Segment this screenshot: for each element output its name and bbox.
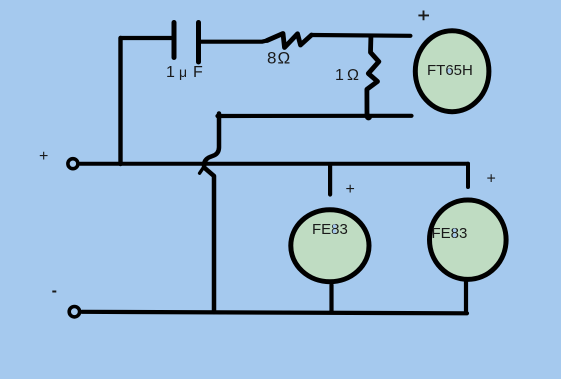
svg-text:8: 8 xyxy=(267,49,276,68)
svg-text:+: + xyxy=(487,171,496,188)
svg-text:Ω: Ω xyxy=(347,67,359,84)
svg-text:FE83: FE83 xyxy=(432,225,468,242)
wire: top wire to capacitor xyxy=(121,36,173,40)
wire: + rail from terminal to right corner xyxy=(80,162,468,166)
svg-text:F: F xyxy=(193,64,203,81)
junction dot (1-ohm to middle wire) xyxy=(365,114,372,121)
capacitor C1 right plate xyxy=(196,23,201,63)
wire: right FE83 bottom lead xyxy=(464,280,468,312)
blue counter artifact in 6 of FT65H xyxy=(448,68,451,73)
wire: right FE83 top lead (corner down from + rail) xyxy=(466,164,470,187)
svg-text:FE83: FE83 xyxy=(312,221,348,238)
resistor R1 8-ohm zigzag xyxy=(267,34,312,48)
label + (FT65H) xyxy=(418,11,429,21)
speaker FE83 left xyxy=(291,210,369,282)
wire: middle wire (FT65H negative return) xyxy=(218,114,412,118)
svg-text:1: 1 xyxy=(166,64,175,81)
wire: bottom rail xyxy=(82,312,467,314)
blue counter artifacts in 8 of left FE83 xyxy=(333,224,336,228)
resistor R2 1-ohm vertical zigzag xyxy=(367,37,379,117)
wire: vertical with hop over + rail xyxy=(204,114,219,313)
svg-text:+: + xyxy=(346,181,355,198)
wire slip mark at hop crossing xyxy=(200,167,204,173)
wire: left FE83 bottom lead xyxy=(329,285,333,312)
svg-text:1: 1 xyxy=(335,67,344,84)
svg-text:+: + xyxy=(39,148,48,165)
blue counter artifacts in 8 of right FE83 xyxy=(453,228,456,232)
wire: vertical up to capacitor branch xyxy=(118,38,122,164)
wire: left FE83 top lead xyxy=(328,165,332,195)
speaker FE83 right xyxy=(430,200,507,279)
svg-text:Ω: Ω xyxy=(278,49,291,68)
capacitor C1 left plate xyxy=(172,23,177,58)
speaker FT65H (tweeter) xyxy=(415,31,489,112)
wire: 8-ohm to FT65H top stub xyxy=(312,33,411,38)
svg-text:μ: μ xyxy=(179,64,187,80)
wire: capacitor to 8-ohm resistor xyxy=(201,41,267,42)
terminal + (input positive) xyxy=(68,159,78,169)
label - (input) xyxy=(52,291,56,293)
terminal - (input negative) xyxy=(69,307,79,317)
